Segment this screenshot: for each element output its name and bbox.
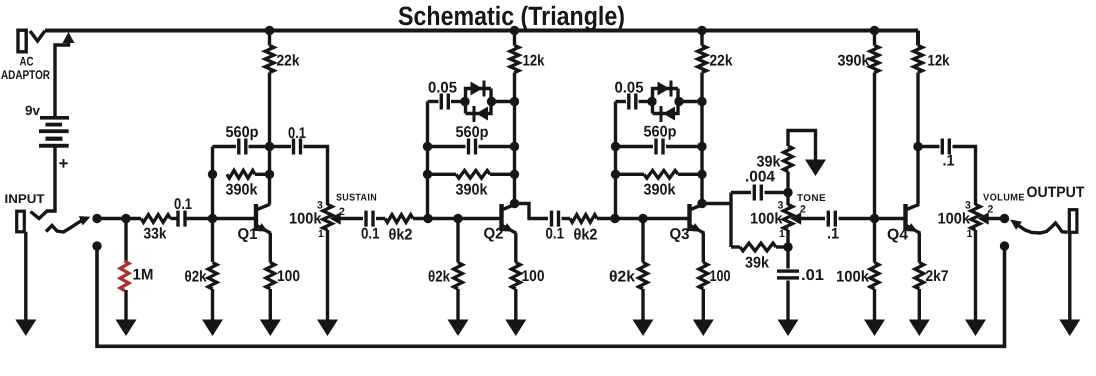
resistor R14 22k	[698, 46, 707, 73]
capacitor C13 .1	[941, 139, 951, 155]
ground R11	[505, 320, 526, 337]
label C10 .004	[745, 169, 775, 186]
capacitor C6 560p	[467, 139, 477, 155]
resistor R2 33k	[141, 215, 171, 223]
svg-text:390k: 390k	[644, 182, 676, 199]
node rail-Q3	[697, 26, 706, 35]
label Q1	[238, 226, 258, 243]
label VOLUME	[983, 193, 1025, 204]
pin 3 tone	[778, 200, 784, 212]
label C4 0.1	[361, 226, 380, 243]
label R18 39k	[745, 255, 769, 272]
wire sustain wiper to C4	[340, 217, 364, 220]
wire volume wiper to output node	[988, 217, 1005, 220]
resistor R18 39k	[740, 243, 776, 251]
svg-text:0.1: 0.1	[361, 226, 380, 243]
node C9 right	[697, 142, 706, 151]
wire C4 to R7	[376, 217, 385, 220]
svg-text:Q1: Q1	[238, 226, 258, 243]
wire tone left vertical	[729, 193, 732, 248]
wire 0.05-3 to diodes	[639, 100, 653, 103]
svg-text:0.1: 0.1	[174, 196, 192, 213]
svg-text:1: 1	[318, 228, 324, 240]
label SUSTAIN	[336, 193, 377, 204]
node Q3 base resistor	[638, 214, 647, 223]
node D1 D2 left	[460, 97, 469, 106]
svg-text:.01: .01	[801, 267, 824, 284]
wire stage3 left vertical	[614, 102, 617, 219]
wire 39k-h right lead	[776, 245, 788, 248]
pin 2 sustain	[339, 206, 345, 218]
svg-text:VOLUME: VOLUME	[983, 193, 1025, 204]
wire Q2 collector jog	[515, 204, 549, 219]
label VR1 100k	[289, 211, 322, 228]
svg-text:100k: 100k	[938, 211, 971, 228]
svg-text:12k: 12k	[928, 53, 950, 70]
wire 39k-v bottom lead	[786, 172, 789, 193]
label R3 390k	[226, 182, 258, 199]
svg-text:θk2: θk2	[389, 227, 413, 244]
resistor R9 12k	[510, 46, 519, 73]
wire C12 to Q4 base	[839, 217, 904, 220]
svg-text:Q3: Q3	[670, 226, 690, 243]
node D3 D4 right	[674, 97, 683, 106]
label C11 .01	[801, 267, 824, 284]
wire R15 to ground	[641, 289, 644, 321]
svg-text:12k: 12k	[523, 53, 545, 70]
label R9 12k	[523, 53, 545, 70]
wire R10 to ground	[456, 289, 459, 321]
label C7 0.1	[546, 226, 565, 243]
svg-text:3: 3	[778, 200, 784, 212]
wire 560p-3	[616, 145, 703, 148]
ground R6	[260, 320, 281, 337]
node bypass left	[92, 241, 101, 250]
label R12 0k2	[574, 227, 598, 244]
svg-text:0.05: 0.05	[428, 80, 457, 97]
svg-text:1M: 1M	[133, 267, 154, 284]
wire input sleeve to ground	[24, 232, 27, 321]
potentiometer VR2 tone 100k	[783, 205, 792, 231]
label 9v	[25, 103, 40, 118]
wire R12 to Q3 base	[597, 217, 688, 220]
wire R22 to ground	[918, 289, 921, 321]
node Q2 input net	[423, 214, 432, 223]
net V+ top rail	[45, 29, 918, 33]
wire diodes-3 to collector net	[679, 100, 702, 103]
wire diodes-2 to collector net	[492, 100, 515, 103]
pin 2 tone	[800, 204, 806, 216]
node Q2 collector	[510, 199, 519, 208]
capacitor C12 .1	[827, 211, 837, 227]
label R7 0k2	[389, 227, 413, 244]
wire 0.05-3 left	[616, 100, 627, 103]
wire AC jack tip	[30, 31, 45, 41]
svg-text:390k: 390k	[226, 182, 258, 199]
wire 560p-1 right	[249, 145, 270, 148]
resistor R1 1M	[120, 261, 129, 291]
label C13 .1	[943, 153, 955, 170]
wiper tone	[790, 212, 801, 225]
label 33k	[144, 226, 167, 243]
wire 0.05-2 left	[428, 100, 439, 103]
label VR2 100k	[750, 211, 783, 228]
svg-text:0.1: 0.1	[546, 226, 565, 243]
node R8 left	[423, 170, 432, 179]
node C6 right	[510, 142, 519, 151]
node Q3 collector net top	[697, 97, 706, 106]
node Q2 base resistor	[453, 214, 462, 223]
svg-text:100: 100	[710, 268, 731, 285]
wire collector to C13	[918, 145, 940, 148]
arrow input lead	[79, 216, 91, 225]
label R22 2k7	[926, 268, 949, 285]
label R6 100	[277, 268, 300, 285]
label ADAPTOR	[1, 68, 50, 82]
transistor Q4	[903, 204, 920, 233]
svg-text:Q4: Q4	[887, 227, 908, 244]
node Q4 collector out	[913, 142, 922, 151]
wire input flying lead	[46, 219, 85, 232]
label R8 390k	[456, 182, 488, 199]
ground tone top	[805, 160, 826, 177]
wire Q4 collector vertical	[916, 31, 920, 205]
wire 39k-h left lead	[731, 245, 740, 248]
label C12 .1	[827, 226, 839, 243]
node Q1 collector feedback lower	[265, 170, 274, 179]
wire 02k to ground	[211, 289, 214, 321]
label C1 0.1	[174, 196, 192, 213]
label C5 0.05	[428, 80, 457, 97]
label R5 02k	[185, 269, 207, 286]
resistor R15 02k	[639, 263, 648, 290]
wire Q3 collector vertical	[700, 32, 703, 204]
resistor R19 390k	[870, 46, 879, 73]
wire 39k-v to ground arrow	[788, 131, 816, 162]
svg-text:3: 3	[317, 200, 323, 212]
node R13 left	[611, 170, 620, 179]
ground R22	[909, 320, 930, 337]
svg-text:560p: 560p	[456, 124, 489, 141]
battery B1 9v	[39, 116, 69, 148]
wire R15 top lead	[641, 219, 644, 263]
wire C3 to sustain pot	[304, 147, 328, 206]
label R16 100	[710, 268, 731, 285]
resistor R5 02k	[208, 263, 217, 290]
wire .004 right	[765, 191, 789, 194]
node C9 left	[611, 142, 620, 151]
wire output sleeve to ground	[1068, 233, 1071, 322]
svg-text:θ2k: θ2k	[609, 269, 635, 286]
wire 390k-1 right lead	[255, 173, 270, 176]
resistor R17 39k	[784, 146, 793, 172]
wire tone pot bottom	[786, 230, 789, 269]
capacitor C11 .01	[777, 269, 799, 279]
svg-text:100: 100	[522, 268, 545, 285]
wire bypass bottom rail	[97, 246, 1005, 346]
wire .004 left	[731, 191, 751, 194]
diode D2	[473, 106, 489, 122]
resistor R10 02k	[454, 263, 463, 290]
label Q3	[670, 226, 690, 243]
svg-text:ADAPTOR: ADAPTOR	[1, 68, 50, 82]
wire .01 to ground	[786, 281, 789, 322]
wire output flying lead	[1019, 223, 1068, 233]
wire Q4 base vertical	[873, 32, 876, 263]
diode D1	[471, 81, 486, 97]
wire 100-1 to ground	[269, 289, 272, 321]
node Q1 collector feedback upper	[265, 142, 274, 151]
svg-text:100: 100	[277, 268, 300, 285]
pin 2 volume	[988, 204, 994, 216]
label C2 560p	[226, 124, 259, 141]
potentiometer VR3 volume 100k	[971, 205, 980, 231]
resistor R7 0k2	[385, 215, 413, 223]
ground output jack	[1059, 320, 1080, 337]
capacitor C9 560p	[654, 139, 664, 155]
pin 3 sustain	[317, 200, 323, 212]
svg-text:Schematic (Triangle): Schematic (Triangle)	[398, 1, 625, 31]
label TONE	[797, 193, 826, 204]
wire Q4 emitter lead	[918, 233, 921, 263]
ground R10	[448, 320, 469, 337]
wire Q3 collector to tone	[702, 202, 731, 205]
node Q3 collector	[697, 199, 706, 208]
wire Q2 emitter lead	[514, 233, 517, 263]
wire battery to rail	[55, 40, 69, 116]
label VR3 100k	[938, 211, 971, 228]
capacitor C1 0.1	[176, 211, 186, 227]
ground sustain	[317, 320, 338, 337]
ground C11	[778, 320, 799, 337]
wire R11 to ground	[514, 289, 517, 321]
ground R16	[693, 320, 714, 337]
wiper sustain	[330, 212, 341, 225]
transistor Q2	[499, 204, 516, 233]
node Q1 base	[208, 214, 217, 223]
svg-text:.1: .1	[827, 226, 839, 243]
wire tone pot top lead	[786, 193, 789, 206]
svg-text:OUTPUT: OUTPUT	[1027, 184, 1085, 201]
jack J2 AC adaptor	[18, 30, 26, 52]
svg-text:TONE: TONE	[797, 193, 826, 204]
wire Q1 emitter lead	[269, 233, 272, 263]
wire 560p-1 left	[213, 145, 237, 148]
label C9 560p	[644, 124, 677, 141]
capacitor C5 0.05	[440, 94, 450, 110]
wire C13 to volume pot	[953, 147, 976, 206]
label battery +	[59, 154, 69, 173]
svg-text:AC: AC	[20, 55, 34, 69]
node tone pot top	[783, 188, 792, 197]
node 1M top	[121, 214, 130, 223]
label Q4	[887, 227, 908, 244]
resistor R16 100	[699, 263, 708, 290]
ground volume	[965, 320, 986, 337]
svg-text:θk2: θk2	[574, 227, 598, 244]
wire 560p-2	[428, 145, 515, 148]
resistor R22 2k7	[915, 263, 924, 290]
wire tone wiper to C12	[800, 217, 825, 220]
capacitor C3 0.1	[292, 139, 302, 155]
svg-text:Q2: Q2	[484, 226, 504, 243]
label R15 02k	[609, 269, 635, 286]
arrow battery-to-rail	[63, 32, 75, 43]
svg-text:0.1: 0.1	[288, 125, 306, 142]
label R4 22k	[277, 53, 300, 70]
ground R20	[864, 320, 885, 337]
wire input node to 1M node	[97, 217, 141, 220]
svg-text:100k: 100k	[289, 211, 322, 228]
ground R5	[202, 320, 223, 337]
label C8 0.05	[615, 80, 644, 97]
wire sustain bottom to ground	[326, 230, 329, 321]
node rail-Q1	[265, 26, 274, 35]
wire stage1 left vertical	[211, 147, 214, 263]
node tone pot bottom	[783, 242, 792, 251]
label R20 100k	[836, 269, 869, 286]
wire Q3 emitter lead	[702, 233, 705, 263]
capacitor C10 .004	[753, 185, 763, 201]
label R17 39k	[757, 154, 781, 171]
svg-text:INPUT: INPUT	[5, 192, 45, 206]
transistor Q1	[254, 204, 271, 233]
wire 1M bottom lead	[124, 290, 127, 321]
node D1 D2 right	[487, 97, 496, 106]
wiper volume	[978, 212, 989, 225]
resistor R21 12k	[914, 46, 923, 73]
label Q2	[484, 226, 504, 243]
svg-text:390k: 390k	[838, 53, 870, 70]
capacitor C4 0.1	[364, 211, 374, 227]
capacitor C8 0.05	[627, 94, 637, 110]
wire 1M top lead	[124, 219, 127, 263]
node rail-Q2	[510, 26, 519, 35]
resistor R20 100k	[870, 263, 879, 290]
svg-text:θ2k: θ2k	[428, 269, 450, 286]
label C3 0.1	[288, 125, 306, 142]
label R10 02k	[428, 269, 450, 286]
wire R16 to ground	[702, 289, 705, 321]
svg-text:1: 1	[967, 228, 973, 240]
label R21 12k	[928, 53, 950, 70]
wire Q2 collector vertical	[513, 32, 516, 204]
node Q3 input net	[610, 214, 619, 223]
pin 1 tone	[779, 228, 785, 240]
svg-text:SUSTAIN: SUSTAIN	[336, 193, 377, 204]
svg-text:39k: 39k	[757, 154, 781, 171]
svg-text:22k: 22k	[277, 53, 300, 70]
wire Q1 collector to C3	[270, 145, 292, 148]
jack J3 OUTPUT	[1069, 210, 1077, 233]
node Q2 collector net top	[510, 97, 519, 106]
title	[398, 1, 625, 31]
svg-text:560p: 560p	[226, 124, 259, 141]
svg-text:2k7: 2k7	[926, 268, 949, 285]
wire diode loop 3	[653, 89, 679, 114]
pin 3 volume	[965, 200, 971, 212]
resistor R3 390k	[227, 170, 255, 178]
transistor Q3	[687, 204, 704, 233]
svg-text:0.05: 0.05	[615, 80, 644, 97]
wire stage2 left vertical	[426, 102, 429, 219]
node output switch	[1000, 214, 1009, 223]
capacitor C7 0.1	[550, 211, 560, 227]
node D3 D4 left	[647, 97, 656, 106]
jack J1 INPUT	[17, 211, 25, 232]
node rail-Q4	[870, 26, 879, 35]
svg-text:.1: .1	[943, 153, 955, 170]
diode D4	[660, 106, 676, 122]
label R14 22k	[710, 53, 733, 70]
resistor R8 390k	[456, 170, 490, 178]
svg-text:22k: 22k	[710, 53, 733, 70]
resistor R6 100	[266, 263, 275, 290]
ground R15	[633, 320, 654, 337]
label C6 560p	[456, 124, 489, 141]
svg-text:560p: 560p	[644, 124, 677, 141]
wire volume bottom to ground	[974, 230, 977, 321]
svg-text:9v: 9v	[25, 103, 40, 118]
capacitor C2 560p	[237, 139, 247, 155]
svg-text:θ2k: θ2k	[185, 269, 207, 286]
node bypass right	[1000, 241, 1009, 250]
wire C7 to R12	[562, 217, 571, 220]
resistor R4 22k	[265, 46, 274, 73]
wire C1 to Q1 base node	[186, 217, 255, 220]
resistor R13 390k	[644, 170, 678, 178]
svg-text:390k: 390k	[456, 182, 488, 199]
label INPUT	[5, 192, 45, 206]
svg-text:.004: .004	[745, 169, 775, 186]
node C6 left	[423, 142, 432, 151]
wire 33k to C1	[171, 217, 179, 220]
arrow output lead	[1010, 220, 1022, 230]
resistor R12 0k2	[570, 215, 597, 223]
label 1M	[133, 267, 154, 284]
wire R8 leads	[428, 173, 515, 176]
label OUTPUT	[1027, 184, 1085, 201]
node Q1 390k left	[208, 170, 217, 179]
svg-text:100k: 100k	[750, 211, 783, 228]
diode D3	[658, 81, 673, 97]
svg-text:39k: 39k	[745, 255, 769, 272]
pin 1 volume	[967, 228, 973, 240]
wire R20 to ground	[873, 289, 876, 321]
ground 1M	[116, 320, 137, 337]
node input switch	[92, 214, 101, 223]
potentiometer VR1 sustain 100k	[323, 205, 332, 231]
svg-text:100k: 100k	[836, 269, 869, 286]
resistor R11 100	[511, 263, 520, 290]
svg-text:33k: 33k	[144, 226, 167, 243]
wire R7 to Q2 base	[413, 217, 500, 220]
label R19 390k	[838, 53, 870, 70]
node Q4 base	[870, 214, 879, 223]
node R8 right	[510, 170, 519, 179]
svg-text:+: +	[59, 154, 69, 173]
label R13 390k	[644, 182, 676, 199]
wire 0.05-2 to diodes	[451, 100, 465, 103]
svg-text:1: 1	[779, 228, 785, 240]
wire R10 top lead	[456, 219, 459, 263]
wire diode loop 2	[466, 89, 492, 114]
label R11 100	[522, 268, 545, 285]
label AC	[20, 55, 34, 69]
svg-text:3: 3	[965, 200, 971, 212]
wire Q1 collector vertical	[268, 32, 271, 205]
pin 1 sustain	[318, 228, 324, 240]
